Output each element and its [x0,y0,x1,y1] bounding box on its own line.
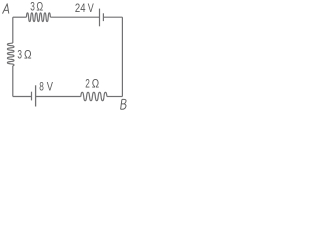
svg-text:8: 8 [39,79,44,93]
wire top-left lead [13,16,27,18]
svg-text:24: 24 [75,1,86,15]
svg-text:Ω: Ω [36,0,43,14]
svg-text:2: 2 [85,76,90,90]
resistor R2 3 ohm (left) [7,43,14,66]
wire bottom right lead [107,96,123,98]
resistor R1 3 ohm (top) [26,13,50,22]
svg-text:Ω: Ω [24,48,32,62]
svg-text:Ω: Ω [92,76,99,90]
node A [3,4,9,14]
svg-text:V: V [47,79,53,93]
battery V1 24 V short plate [102,13,104,21]
wire left lower [12,66,14,97]
wire top right [103,16,122,18]
battery V2 8 V short plate [31,92,33,101]
wire bottom left [13,96,32,98]
resistor R3 2 ohm (bottom) [81,92,107,100]
wire right side [121,17,123,96]
node B [121,99,126,109]
wire top middle [50,16,99,18]
wire bottom middle [36,96,81,98]
svg-text:V: V [88,1,94,15]
battery V1 24 V long plate [99,9,101,27]
wire left upper [12,17,14,43]
svg-text:3: 3 [17,48,22,62]
svg-text:3: 3 [30,0,35,14]
battery V2 8 V long plate [35,85,37,106]
